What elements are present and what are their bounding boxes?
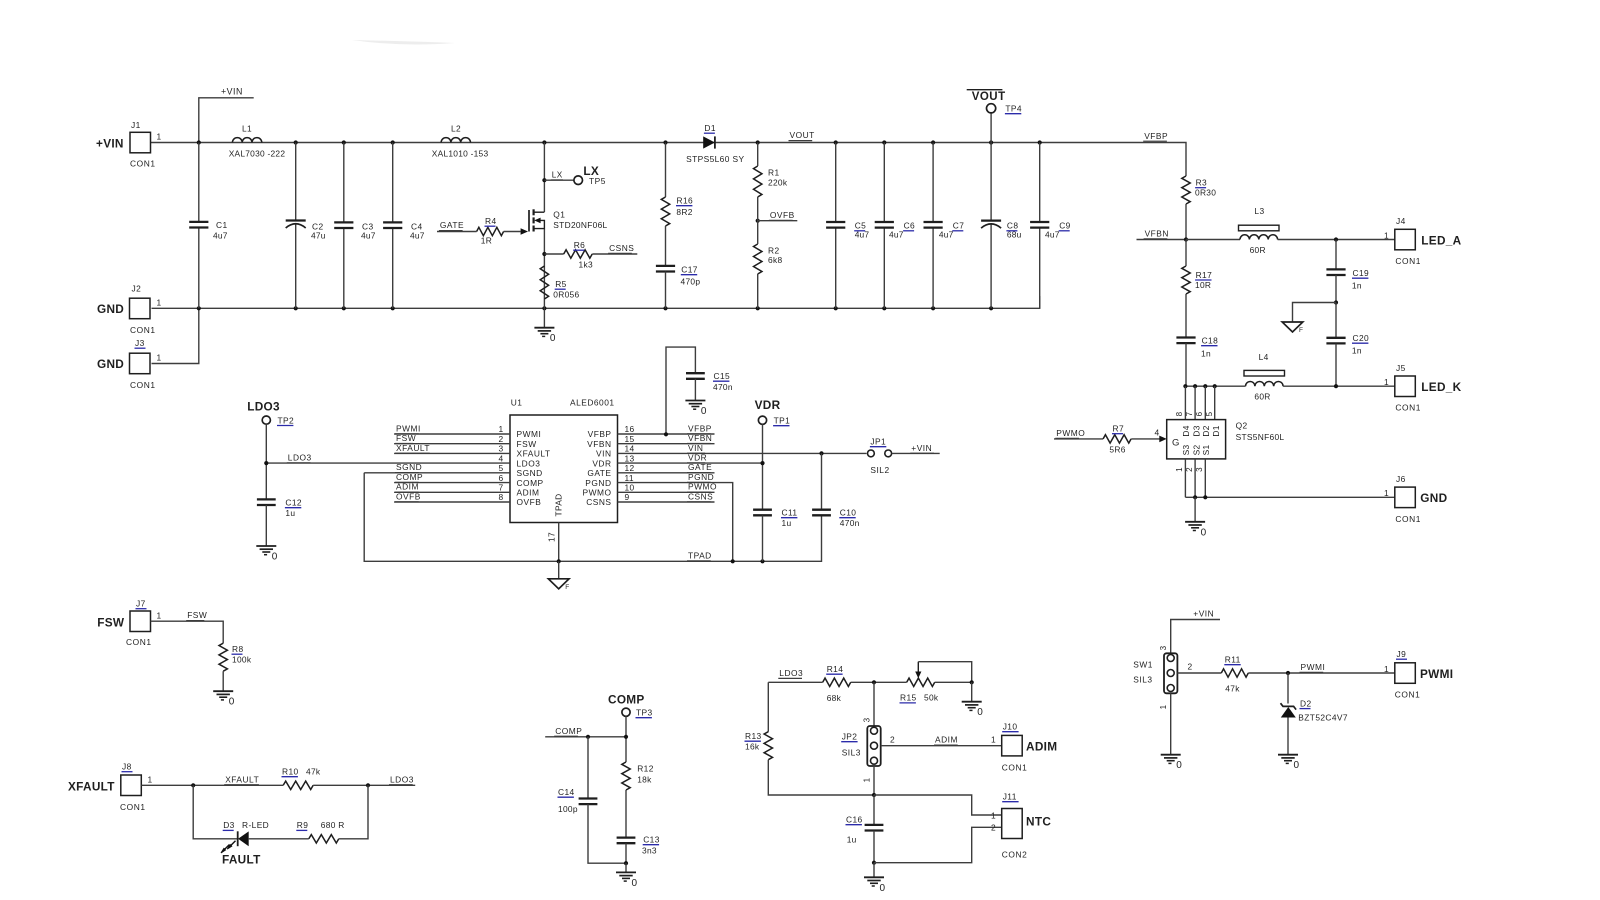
svg-text:XFAULT: XFAULT [225, 774, 259, 784]
svg-text:C7: C7 [953, 221, 965, 231]
svg-text:R16: R16 [677, 196, 694, 206]
svg-text:R15: R15 [900, 693, 917, 703]
svg-text:C11: C11 [782, 508, 798, 518]
svg-text:R11: R11 [1225, 655, 1241, 665]
svg-text:VIN: VIN [596, 449, 611, 459]
svg-text:1: 1 [863, 777, 872, 782]
jumper JP1 SIL2 [868, 437, 892, 476]
svg-text:7: 7 [498, 483, 503, 493]
svg-text:0: 0 [272, 552, 278, 563]
svg-text:GATE: GATE [587, 468, 611, 478]
svg-text:XFAULT: XFAULT [68, 780, 115, 794]
svg-text:10: 10 [625, 483, 635, 493]
wire PWMI node to D2 [1287, 673, 1289, 704]
svg-text:G: G [1172, 438, 1180, 449]
wire VFBN to L3 [1186, 239, 1240, 241]
wire NTC pin2 to ground [874, 827, 1002, 862]
svg-text:PWMO: PWMO [1056, 428, 1085, 438]
svg-text:D4: D4 [1181, 425, 1191, 436]
connector J7 FSW [97, 599, 161, 648]
node PWMI net label [1300, 662, 1326, 672]
testpoint TP3 COMP [608, 693, 653, 718]
svg-text:PWMI: PWMI [396, 423, 421, 433]
svg-text:0: 0 [550, 333, 556, 344]
connector J3 GND [97, 338, 162, 390]
svg-text:12: 12 [625, 463, 635, 473]
svg-text:STPS5L60 SY: STPS5L60 SY [686, 154, 744, 164]
svg-text:J10: J10 [1003, 722, 1018, 732]
svg-text:PGND: PGND [688, 472, 714, 482]
svg-text:BZT52C4V7: BZT52C4V7 [1298, 713, 1348, 723]
svg-text:4: 4 [1155, 428, 1160, 438]
svg-text:4u7: 4u7 [410, 231, 425, 241]
ground below D2 [1278, 755, 1300, 772]
svg-text:ADIM: ADIM [396, 482, 419, 492]
svg-text:C19: C19 [1353, 268, 1370, 278]
svg-text:TPAD: TPAD [554, 494, 564, 517]
svg-text:VOUT: VOUT [790, 130, 815, 140]
svg-text:C18: C18 [1202, 336, 1219, 346]
node TPAD net label [687, 550, 712, 560]
svg-text:0R056: 0R056 [553, 289, 579, 299]
svg-text:U1: U1 [511, 397, 523, 407]
svg-text:CON1: CON1 [120, 802, 146, 812]
capacitor C11 1u [753, 508, 797, 562]
svg-text:Q2: Q2 [1236, 421, 1248, 431]
svg-text:2: 2 [991, 823, 996, 833]
svg-text:PWMI: PWMI [1301, 662, 1326, 672]
node VFBP net label top right [1143, 131, 1168, 141]
diode D1 STPS5L60SY [686, 123, 744, 164]
svg-text:+VIN: +VIN [911, 443, 932, 453]
svg-text:STS5NF60L: STS5NF60L [1236, 432, 1285, 442]
svg-text:ADIM: ADIM [1026, 740, 1057, 754]
svg-text:1n: 1n [1352, 281, 1362, 291]
svg-text:R12: R12 [637, 764, 654, 774]
testpoint TP2 LDO3 [247, 400, 294, 426]
resistor R8 100k [219, 643, 252, 671]
ground below C15 [685, 401, 707, 418]
svg-text:J11: J11 [1003, 792, 1017, 802]
svg-text:47u: 47u [311, 231, 326, 241]
svg-text:5R6: 5R6 [1109, 444, 1125, 454]
svg-text:C9: C9 [1059, 221, 1071, 231]
capacitor C15 470n [664, 347, 733, 436]
svg-text:GND: GND [1420, 491, 1447, 505]
svg-text:NTC: NTC [1026, 815, 1051, 829]
svg-text:PWMI: PWMI [517, 429, 542, 439]
wire L3 to J4 [1278, 237, 1395, 241]
svg-text:R1: R1 [768, 167, 780, 177]
svg-text:1u: 1u [847, 835, 857, 845]
svg-text:1: 1 [1384, 664, 1389, 674]
svg-text:+VIN: +VIN [96, 136, 124, 150]
svg-text:LDO3: LDO3 [390, 774, 414, 784]
wire to flag ground [1293, 303, 1337, 323]
svg-text:6k8: 6k8 [768, 255, 782, 265]
wire LX stub to TP5 [544, 179, 574, 181]
svg-text:C16: C16 [846, 815, 863, 825]
svg-text:COMP: COMP [555, 726, 582, 736]
wire TP1 VDR column [760, 424, 764, 509]
resistor R13 16k [745, 682, 875, 795]
svg-text:CON1: CON1 [130, 159, 156, 169]
svg-text:68u: 68u [1007, 229, 1022, 239]
node CSNS net label [608, 243, 634, 253]
wire +VIN stub top-left [199, 98, 254, 143]
svg-text:J5: J5 [1396, 363, 1406, 373]
wire J3 to GND rail [152, 308, 199, 363]
wire Q2 drain stubs [1185, 386, 1214, 419]
svg-text:J3: J3 [135, 338, 145, 348]
wire R14 to R15 [851, 680, 907, 684]
svg-text:JP1: JP1 [870, 437, 886, 447]
svg-text:Q1: Q1 [553, 210, 565, 220]
svg-text:CSNS: CSNS [688, 491, 713, 501]
svg-text:60R: 60R [1254, 392, 1270, 402]
svg-text:1: 1 [1159, 704, 1168, 709]
svg-text:LDO3: LDO3 [779, 668, 803, 678]
svg-text:C20: C20 [1353, 333, 1370, 343]
flag ground F near C19 [1282, 322, 1303, 334]
svg-text:6: 6 [498, 473, 503, 483]
connector J4 LED_A [1384, 216, 1462, 266]
svg-text:VFBN: VFBN [1145, 228, 1169, 238]
svg-text:COMP: COMP [608, 693, 645, 707]
svg-text:PWMO: PWMO [583, 488, 612, 498]
capacitor C6 4u7 [875, 143, 915, 309]
svg-text:100k: 100k [232, 655, 252, 665]
svg-text:JP2: JP2 [842, 732, 858, 742]
svg-text:68k: 68k [827, 693, 842, 703]
wire COMP stub [545, 716, 628, 762]
svg-text:1: 1 [1175, 467, 1184, 472]
svg-text:0R30: 0R30 [1195, 188, 1216, 198]
svg-text:FSW: FSW [97, 616, 125, 630]
svg-text:17: 17 [547, 532, 557, 542]
svg-text:SGND: SGND [396, 462, 422, 472]
svg-text:470n: 470n [840, 518, 860, 528]
svg-text:1: 1 [157, 610, 162, 620]
svg-text:FAULT: FAULT [222, 853, 261, 867]
svg-text:3: 3 [1195, 467, 1204, 472]
svg-text:FSW: FSW [396, 433, 416, 443]
svg-text:LDO3: LDO3 [247, 400, 280, 414]
svg-text:1: 1 [157, 298, 162, 308]
svg-text:OVFB: OVFB [517, 497, 542, 507]
svg-text:GND: GND [97, 302, 124, 316]
svg-text:D1: D1 [704, 123, 716, 133]
resistor R6 1k3 CSNS [544, 240, 593, 270]
capacitor C3 4u7 [334, 143, 376, 309]
svg-text:F: F [1299, 327, 1303, 334]
svg-text:3: 3 [863, 717, 872, 722]
svg-text:0: 0 [701, 406, 707, 417]
svg-text:0: 0 [229, 697, 235, 708]
svg-text:SGND: SGND [517, 468, 543, 478]
ground below R5 [534, 308, 556, 344]
connector J9 PWMI [1384, 649, 1453, 700]
wire U1 right pin stubs [618, 434, 867, 561]
svg-text:0: 0 [977, 707, 983, 718]
svg-text:D3: D3 [223, 820, 235, 830]
inductor L1 XAL7030-222 [229, 124, 286, 159]
svg-text:+VIN: +VIN [1193, 609, 1214, 619]
svg-text:1: 1 [991, 810, 996, 820]
svg-text:SIL3: SIL3 [842, 747, 861, 757]
resistor R1 220k [754, 166, 788, 197]
wire OVFB stub [756, 219, 798, 223]
ground below SW1 [1161, 693, 1183, 771]
wire J7 to R8 [151, 621, 224, 643]
svg-text:LDO3: LDO3 [288, 453, 312, 463]
node left pin net labels [287, 423, 430, 501]
svg-text:R9: R9 [297, 820, 309, 830]
svg-text:L3: L3 [1254, 206, 1264, 216]
svg-text:OVFB: OVFB [770, 210, 795, 220]
svg-text:4u7: 4u7 [213, 231, 228, 241]
connector J10 ADIM [991, 722, 1057, 773]
svg-text:5: 5 [498, 463, 503, 473]
svg-text:XAL1010 -153: XAL1010 -153 [432, 149, 489, 159]
svg-text:15: 15 [625, 434, 635, 444]
svg-text:OVFB: OVFB [396, 491, 421, 501]
svg-text:GND: GND [97, 357, 124, 371]
svg-text:10R: 10R [1195, 280, 1211, 290]
inductor L2 XAL1010-153 [432, 124, 489, 159]
svg-text:L4: L4 [1259, 352, 1269, 362]
ground below C12 [256, 546, 278, 563]
svg-text:TP1: TP1 [774, 416, 791, 426]
svg-text:ALED6001: ALED6001 [570, 397, 615, 407]
svg-text:LED_K: LED_K [1421, 380, 1461, 394]
wire LDO3 to R14 [768, 681, 822, 683]
wire fault branch down [193, 785, 238, 839]
svg-text:FSW: FSW [517, 439, 537, 449]
junction VFBN [1184, 237, 1188, 241]
svg-text:8: 8 [498, 492, 503, 502]
svg-text:18k: 18k [637, 775, 652, 785]
svg-text:220k: 220k [768, 178, 788, 188]
capacitor C1 4u7 [189, 143, 228, 309]
svg-text:VFBP: VFBP [688, 423, 712, 433]
svg-text:CON1: CON1 [1395, 403, 1421, 413]
svg-text:4u7: 4u7 [1045, 229, 1060, 239]
node OVFB net label [769, 210, 795, 220]
svg-text:J7: J7 [136, 599, 146, 609]
svg-text:1: 1 [148, 775, 153, 785]
svg-text:C1: C1 [216, 220, 228, 230]
svg-text:CON2: CON2 [1002, 850, 1028, 860]
svg-text:C10: C10 [840, 508, 857, 518]
resistor R11 47k [1221, 655, 1248, 694]
resistor R14 68k [823, 664, 851, 703]
svg-text:2: 2 [890, 735, 895, 745]
capacitor C7 4u7 [924, 143, 965, 309]
svg-text:1: 1 [991, 735, 996, 745]
svg-text:LED_A: LED_A [1421, 233, 1461, 247]
svg-text:R4: R4 [485, 216, 497, 226]
svg-text:R17: R17 [1196, 270, 1213, 280]
node VOUT net label [789, 130, 815, 140]
svg-text:TP2: TP2 [278, 415, 295, 425]
svg-text:STD20NF06L: STD20NF06L [553, 220, 607, 230]
svg-text:C17: C17 [681, 265, 698, 275]
wire +VIN / VOUT top rail [151, 143, 1187, 164]
ground below R8 [213, 671, 235, 708]
svg-text:L2: L2 [451, 124, 461, 134]
wire TPAD rail [364, 473, 821, 564]
svg-text:3: 3 [1159, 645, 1168, 650]
svg-text:C6: C6 [904, 221, 916, 231]
svg-text:4u7: 4u7 [939, 229, 954, 239]
svg-text:+VIN: +VIN [221, 87, 243, 97]
svg-text:0: 0 [1176, 760, 1182, 771]
wire R1-R2 column [757, 143, 759, 309]
connector J11 NTC [991, 792, 1051, 860]
svg-text:R7: R7 [1113, 424, 1125, 434]
capacitor C2 47u [286, 143, 326, 309]
svg-text:470n: 470n [713, 382, 733, 392]
node GATE net label [439, 220, 464, 230]
svg-text:J8: J8 [122, 762, 132, 772]
ground below Q2 [1185, 497, 1207, 538]
svg-text:COMP: COMP [396, 472, 423, 482]
svg-text:1: 1 [1384, 230, 1389, 240]
IC U1 ALED6001 [498, 397, 634, 522]
node LDO3 net label near R14 [778, 668, 803, 678]
svg-text:1n: 1n [1352, 346, 1362, 356]
wire JP2 pin2 to J10 [881, 735, 1002, 746]
svg-text:XFAULT: XFAULT [517, 449, 551, 459]
svg-text:CSNS: CSNS [609, 243, 634, 253]
svg-text:VFBN: VFBN [587, 439, 611, 449]
svg-text:CON1: CON1 [1002, 763, 1028, 773]
wire CSNS stub [592, 253, 637, 255]
resistor R16 8R2 [661, 143, 693, 226]
svg-text:R5: R5 [555, 279, 567, 289]
svg-text:CON1: CON1 [1395, 256, 1421, 266]
svg-text:CON1: CON1 [130, 325, 156, 335]
svg-text:SIL2: SIL2 [870, 465, 889, 475]
svg-text:R13: R13 [745, 731, 762, 741]
wire Q1 drain-source column [542, 143, 546, 309]
resistor R10 47k [282, 767, 321, 790]
wire Q2 source stubs to GND [1185, 459, 1394, 500]
svg-text:VFBP: VFBP [1144, 131, 1168, 141]
svg-text:D3: D3 [1191, 425, 1201, 436]
svg-text:XAL7030 -222: XAL7030 -222 [229, 149, 286, 159]
svg-text:R2: R2 [768, 245, 780, 255]
svg-text:CON1: CON1 [126, 637, 152, 647]
svg-text:16: 16 [625, 424, 635, 434]
svg-text:8R2: 8R2 [676, 207, 692, 217]
testpoint TP1 VDR [755, 398, 791, 426]
resistor R4 1R gate [477, 216, 528, 245]
svg-text:SW1: SW1 [1133, 660, 1153, 670]
svg-text:J4: J4 [1396, 216, 1406, 226]
svg-text:R14: R14 [827, 664, 844, 674]
capacitor C4 4u7 [383, 143, 425, 309]
svg-text:14: 14 [625, 444, 635, 454]
testpoint TP5 LX [574, 164, 606, 186]
svg-text:0: 0 [880, 883, 886, 894]
svg-text:L1: L1 [242, 124, 252, 134]
svg-text:CON1: CON1 [130, 380, 156, 390]
capacitor C19 1n [1326, 240, 1369, 303]
capacitor C12 1u [257, 498, 302, 547]
svg-text:C13: C13 [643, 835, 660, 845]
junctions top rail [197, 140, 1042, 144]
wire TPAD pad pin 17 [547, 523, 559, 562]
wire J8 to R10 [141, 783, 283, 787]
testpoint TP4 VOUT [967, 90, 1022, 143]
svg-text:47k: 47k [306, 767, 321, 777]
svg-text:CSNS: CSNS [586, 497, 611, 507]
svg-text:S2: S2 [1191, 445, 1201, 456]
node LX net label [551, 171, 563, 180]
wire R11 to J9 [1248, 671, 1395, 675]
svg-text:FSW: FSW [187, 610, 207, 620]
svg-text:GATE: GATE [440, 220, 464, 230]
svg-text:47k: 47k [1225, 684, 1240, 694]
svg-text:1: 1 [157, 132, 162, 142]
svg-text:TP3: TP3 [636, 708, 653, 718]
connector J1 +VIN [96, 120, 162, 169]
transistor Q1 STD20NF06L NMOS [529, 209, 608, 231]
potentiometer R15 50k [900, 662, 974, 703]
svg-text:0: 0 [1294, 760, 1300, 771]
svg-text:1: 1 [498, 424, 503, 434]
svg-text:PWMO: PWMO [688, 482, 717, 492]
svg-text:2: 2 [498, 434, 503, 444]
wire TP2 to C12 [264, 424, 268, 499]
svg-text:D2: D2 [1300, 698, 1312, 708]
svg-text:1n: 1n [1201, 349, 1211, 359]
junctions bottom rail [197, 306, 994, 310]
svg-text:C12: C12 [285, 498, 302, 508]
wire R10 to LDO3 stub [313, 783, 415, 787]
node +VIN net label at JP1 [910, 443, 934, 453]
wire ADIM node to NTC [872, 793, 1002, 815]
svg-text:XFAULT: XFAULT [396, 443, 430, 453]
svg-text:VFBP: VFBP [588, 429, 612, 439]
transistor Q2 STS5NF60L [1167, 411, 1285, 472]
capacitor C13 3n3 [617, 835, 660, 866]
capacitor C20 1n [1326, 303, 1369, 387]
svg-text:11: 11 [625, 473, 635, 483]
svg-text:0: 0 [632, 878, 638, 889]
svg-text:4u7: 4u7 [855, 229, 870, 239]
resistor R17 10R [1182, 240, 1212, 338]
svg-text:6: 6 [1195, 411, 1204, 416]
svg-text:ADIM: ADIM [517, 488, 540, 498]
connector J8 XFAULT [68, 762, 153, 813]
junction C19 C20 mid [1334, 300, 1338, 304]
resistor R9 680R [296, 820, 344, 843]
svg-text:1u: 1u [285, 508, 295, 518]
node FSW net label [186, 610, 207, 620]
svg-text:VFBN: VFBN [688, 433, 712, 443]
svg-text:R3: R3 [1196, 178, 1208, 188]
svg-text:J9: J9 [1397, 649, 1407, 659]
wire SW1 pin2 to R11 [1177, 662, 1221, 674]
svg-text:SIL3: SIL3 [1133, 675, 1152, 685]
ground right of R15 [962, 682, 984, 718]
node XFAULT net label [224, 774, 259, 784]
diode D3 R-LED [221, 820, 269, 866]
svg-text:VDR: VDR [688, 453, 707, 463]
